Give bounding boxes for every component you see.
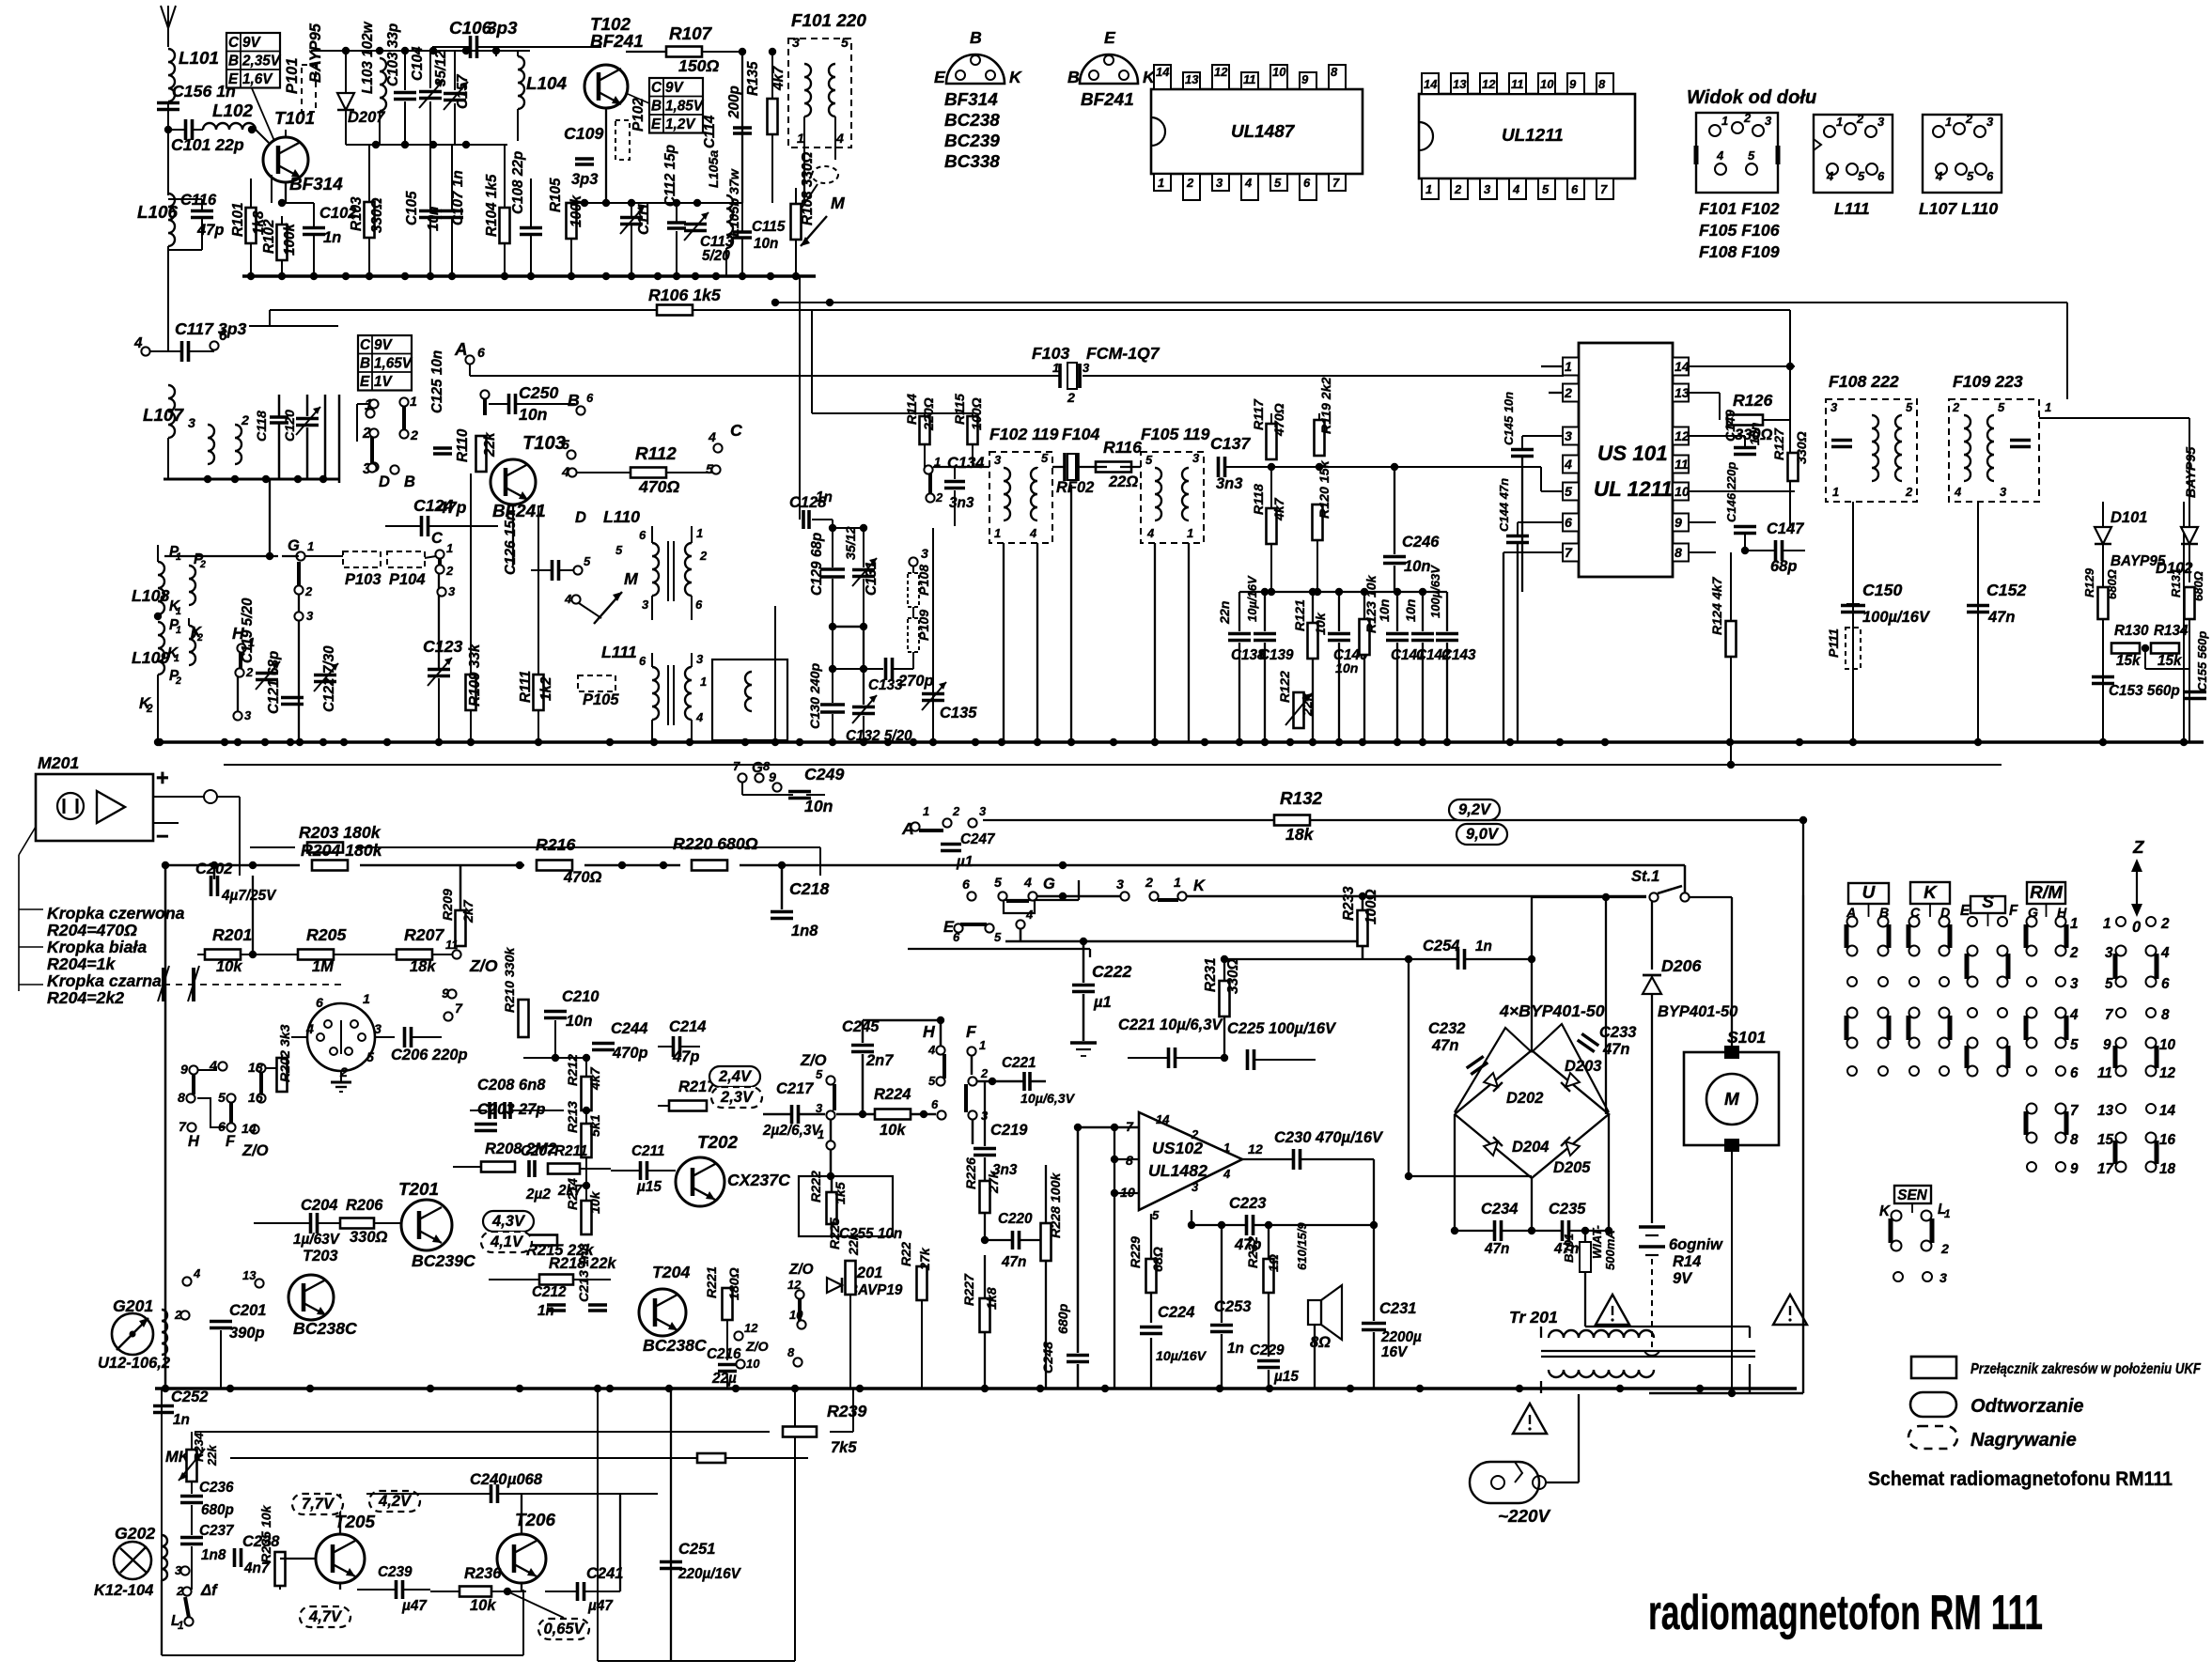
svg-text:10µ/6,3V: 10µ/6,3V [1020,1092,1076,1107]
svg-text:5: 5 [2105,976,2113,992]
svg-text:BYP401-50: BYP401-50 [1658,1003,1738,1020]
svg-text:5: 5 [584,554,591,568]
svg-text:2: 2 [2160,916,2170,932]
svg-text:5: 5 [1967,169,1974,183]
svg-text:3: 3 [374,1022,382,1037]
svg-text:4: 4 [305,1022,314,1037]
svg-text:Z/O: Z/O [745,1340,769,1355]
svg-text:~220V: ~220V [1498,1507,1551,1527]
svg-text:1,6V: 1,6V [242,71,273,87]
svg-text:7: 7 [1332,176,1340,190]
svg-text:F109 223: F109 223 [1953,372,2023,391]
svg-text:680p: 680p [201,1502,234,1518]
svg-text:F: F [2009,903,2018,919]
svg-text:R201: R201 [212,925,252,944]
svg-text:E: E [934,68,946,86]
svg-text:68Ω: 68Ω [1151,1247,1166,1272]
svg-text:C111: C111 [636,203,652,235]
svg-text:C121 68p: C121 68p [266,651,282,714]
svg-text:R209: R209 [441,889,456,921]
svg-text:L107 L110: L107 L110 [1919,199,1998,218]
svg-text:R226: R226 [964,1157,979,1189]
svg-text:9V: 9V [665,80,685,96]
svg-text:8: 8 [787,1345,795,1359]
svg-text:100µ/16V: 100µ/16V [1862,609,1931,626]
svg-text:2: 2 [304,584,313,598]
svg-text:2: 2 [241,413,249,428]
svg-text:3: 3 [921,547,928,562]
svg-text:C249: C249 [804,765,844,784]
svg-text:B: B [568,391,580,410]
svg-text:C147: C147 [1767,520,1804,537]
svg-text:5: 5 [841,36,849,51]
svg-text:10n: 10n [566,1013,592,1030]
svg-text:C210: C210 [562,988,600,1005]
svg-text:680p: 680p [1056,1303,1071,1334]
svg-text:4: 4 [564,592,572,606]
svg-text:C145 10n: C145 10n [1502,392,1516,445]
svg-text:9,0V: 9,0V [1466,826,1500,843]
svg-text:8: 8 [178,1091,185,1106]
svg-text:RF02: RF02 [1056,479,1094,496]
svg-text:2: 2 [2069,945,2079,961]
svg-text:18k: 18k [410,958,436,975]
svg-text:500mA: 500mA [1603,1230,1617,1270]
svg-text:470Ω: 470Ω [1272,403,1287,437]
svg-text:7: 7 [2070,1103,2080,1119]
svg-text:C: C [651,80,662,96]
svg-text:1: 1 [176,625,181,636]
svg-text:C129 68p: C129 68p [809,533,825,596]
svg-text:C139: C139 [1259,647,1294,663]
svg-text:150Ω: 150Ω [678,56,720,75]
svg-text:5: 5 [366,1050,375,1065]
svg-text:C224: C224 [1158,1304,1194,1321]
svg-text:R211: R211 [554,1143,587,1159]
svg-text:U12-106,2: U12-106,2 [98,1355,170,1372]
svg-text:B: B [360,356,370,372]
svg-text:1,65V: 1,65V [374,356,413,372]
svg-text:C222: C222 [1092,962,1131,981]
svg-text:T202: T202 [697,1133,739,1153]
svg-text:R220 680Ω: R220 680Ω [673,834,758,853]
svg-text:1: 1 [176,551,181,563]
svg-text:R107: R107 [669,24,713,44]
svg-text:3: 3 [1083,361,1090,375]
svg-text:R236: R236 [464,1565,502,1582]
svg-text:Δf: Δf [200,1582,218,1599]
svg-text:C211: C211 [631,1143,664,1159]
svg-text:C218: C218 [789,879,829,898]
svg-text:−: − [156,825,169,849]
svg-text:D: D [575,509,586,526]
svg-text:µ47: µ47 [587,1598,614,1614]
svg-text:1: 1 [446,541,453,555]
svg-text:10k: 10k [880,1122,906,1139]
svg-text:4: 4 [927,1043,936,1057]
svg-text:6: 6 [2070,1065,2079,1081]
svg-text:K: K [1193,877,1206,894]
svg-text:µ15: µ15 [1273,1369,1299,1385]
svg-text:5: 5 [994,876,1003,891]
svg-text:10k: 10k [588,1190,603,1214]
svg-text:C109: C109 [564,124,603,143]
svg-text:9: 9 [2103,1037,2111,1053]
svg-text:C234: C234 [1481,1201,1518,1218]
svg-text:R120 15k: R120 15k [1317,459,1332,519]
svg-text:22µ: 22µ [711,1371,737,1387]
svg-text:D204: D204 [1512,1139,1549,1156]
svg-text:R227: R227 [962,1273,977,1306]
svg-text:4: 4 [1244,176,1253,190]
svg-text:R231: R231 [1203,957,1219,992]
svg-text:14: 14 [2159,1103,2176,1119]
svg-text:C237: C237 [199,1523,235,1539]
svg-text:4,2V: 4,2V [378,1493,413,1510]
svg-text:2: 2 [1564,386,1572,401]
svg-text:5k1: 5k1 [588,1114,603,1137]
svg-text:1n: 1n [537,1303,554,1319]
svg-text:3: 3 [448,584,456,598]
svg-text:C250: C250 [519,383,558,402]
svg-text:5: 5 [706,462,714,477]
svg-text:C131: C131 [864,561,880,596]
svg-text:330Ω: 330Ω [369,197,385,233]
svg-text:10µ/16V: 10µ/16V [1156,1349,1207,1364]
svg-text:S: S [1982,892,1994,912]
svg-text:3: 3 [2105,945,2113,961]
svg-text:R233: R233 [1341,886,1357,921]
svg-text:L109: L109 [132,648,169,667]
svg-text:9V: 9V [374,337,394,353]
svg-text:2,35V: 2,35V [241,54,282,70]
svg-text:C220: C220 [998,1211,1033,1227]
svg-text:F108 F109: F108 F109 [1699,242,1780,261]
svg-text:L106: L106 [137,203,179,223]
svg-text:6: 6 [2161,976,2170,992]
svg-text:0: 0 [2132,919,2142,936]
svg-text:C: C [360,337,371,353]
svg-text:2: 2 [362,426,371,442]
svg-text:C247: C247 [960,831,996,847]
svg-text:3: 3 [1216,176,1223,190]
svg-text:R216: R216 [536,835,575,854]
svg-text:G: G [1043,876,1055,892]
svg-text:R109 33k: R109 33k [467,643,483,706]
svg-text:1: 1 [2103,916,2111,932]
svg-text:UL1482: UL1482 [1148,1161,1207,1180]
svg-text:C157: C157 [455,73,471,109]
svg-text:180Ω: 180Ω [727,1267,742,1300]
svg-text:6: 6 [639,528,646,542]
svg-text:T203: T203 [303,1248,338,1265]
svg-text:680Ω: 680Ω [2105,569,2119,599]
svg-text:C114: C114 [702,115,718,148]
svg-text:R204=2k2: R204=2k2 [47,988,124,1007]
svg-text:2: 2 [196,632,203,644]
svg-text:4: 4 [1826,169,1834,183]
svg-text:12: 12 [1248,1142,1263,1157]
svg-text:9V: 9V [242,35,262,51]
svg-text:R228 100k: R228 100k [1049,1172,1064,1238]
svg-text:10: 10 [1272,65,1286,79]
svg-text:C241: C241 [586,1565,623,1582]
svg-text:1: 1 [979,1038,986,1052]
svg-text:C246: C246 [1402,534,1440,551]
svg-text:3: 3 [696,652,704,666]
svg-text:C207: C207 [521,1143,556,1159]
svg-text:7: 7 [455,1001,463,1016]
svg-text:2k7: 2k7 [461,899,476,923]
svg-text:R235 10k: R235 10k [259,1504,274,1563]
svg-text:L102: L102 [212,101,254,121]
svg-text:BC238: BC238 [944,111,1000,131]
svg-text:3: 3 [1484,182,1491,196]
svg-text:470Ω: 470Ω [563,869,602,886]
svg-text:C213 1n8: C213 1n8 [577,1244,592,1302]
svg-text:R115: R115 [953,393,968,425]
svg-text:1n: 1n [1475,939,1492,954]
svg-text:3: 3 [1192,451,1200,465]
svg-text:1: 1 [410,395,417,410]
svg-text:2: 2 [1940,1242,1949,1257]
svg-text:C123: C123 [423,637,462,656]
svg-text:Z/O: Z/O [788,1262,814,1278]
svg-text:R105: R105 [548,178,564,212]
svg-text:R110: R110 [455,428,471,462]
svg-text:K: K [1009,68,1022,86]
svg-text:9V: 9V [1673,1270,1693,1287]
svg-text:9: 9 [1569,77,1577,91]
svg-text:C143: C143 [1441,647,1476,663]
svg-text:14: 14 [1424,77,1438,91]
svg-text:µ47: µ47 [401,1598,428,1614]
svg-text:3: 3 [1765,114,1772,128]
svg-text:14: 14 [1156,1112,1170,1126]
svg-text:A: A [901,819,914,838]
svg-text:2: 2 [1856,112,1864,126]
svg-text:R121: R121 [1293,599,1308,631]
svg-text:3: 3 [1565,429,1572,444]
svg-text:4: 4 [695,710,704,724]
svg-text:2: 2 [935,490,943,504]
svg-text:2: 2 [199,559,206,570]
svg-text:5: 5 [562,438,570,453]
svg-text:1: 1 [1425,182,1432,196]
svg-text:C105: C105 [404,191,420,225]
svg-text:C126 15n: C126 15n [503,512,519,575]
svg-text:4µ7/25V: 4µ7/25V [221,888,277,904]
svg-text:3: 3 [306,609,314,623]
svg-text:35/12: 35/12 [433,50,449,86]
svg-text:C221: C221 [1002,1055,1036,1071]
svg-text:10n: 10n [1378,598,1393,622]
svg-text:Kropka biała: Kropka biała [47,938,147,956]
svg-text:R134: R134 [2154,623,2189,639]
svg-text:3: 3 [175,1563,182,1577]
svg-text:C251: C251 [678,1541,715,1558]
svg-text:13: 13 [1675,386,1690,401]
svg-text:35/12: 35/12 [844,526,859,560]
svg-text:M: M [624,569,639,588]
svg-text:R135: R135 [745,61,761,96]
svg-text:C221 10µ/6,3V: C221 10µ/6,3V [1118,1016,1223,1033]
svg-text:R202 3k3: R202 3k3 [278,1024,293,1082]
svg-text:G201: G201 [113,1296,153,1315]
svg-text:4: 4 [835,132,844,147]
svg-text:R22: R22 [899,1242,914,1266]
svg-text:Z/O: Z/O [800,1052,827,1069]
svg-text:5: 5 [218,1091,226,1106]
svg-text:7: 7 [1565,546,1573,561]
svg-text:6: 6 [962,877,970,892]
svg-text:9: 9 [1675,516,1682,531]
svg-text:3: 3 [244,708,252,722]
svg-text:3n3: 3n3 [949,495,974,511]
svg-text:US102: US102 [1152,1139,1203,1157]
svg-text:R/M: R/M [2030,883,2064,903]
svg-text:C125 10n: C125 10n [429,350,445,413]
svg-text:2: 2 [1454,182,1462,196]
svg-text:4: 4 [708,430,716,445]
svg-text:2,4V: 2,4V [718,1068,753,1085]
svg-text:G: G [288,537,300,554]
svg-text:D: D [379,473,390,490]
svg-text:C115: C115 [752,219,786,235]
svg-text:10n: 10n [1404,558,1430,575]
svg-text:1: 1 [696,526,703,540]
svg-text:C152: C152 [1986,581,2026,599]
svg-text:P108: P108 [917,565,932,596]
svg-text:2: 2 [1067,391,1075,406]
svg-text:22Ω: 22Ω [1108,473,1138,490]
svg-text:4: 4 [561,465,569,480]
svg-text:11: 11 [1243,72,1256,86]
svg-text:2: 2 [1743,111,1752,125]
svg-text:C137: C137 [1210,434,1251,453]
svg-text:BF314: BF314 [944,90,998,110]
svg-text:22k: 22k [482,431,498,458]
svg-text:47n: 47n [1431,1037,1458,1054]
svg-text:F103: F103 [1032,344,1069,363]
svg-text:U: U [1862,883,1877,903]
svg-text:R114: R114 [905,394,920,425]
svg-text:R234: R234 [192,1432,206,1462]
svg-text:C217: C217 [776,1080,814,1097]
svg-text:12: 12 [1675,429,1690,444]
svg-text:13: 13 [1185,72,1199,86]
svg-text:18k: 18k [1285,825,1315,844]
svg-text:1: 1 [178,1619,184,1632]
svg-text:6: 6 [1877,169,1885,183]
svg-text:SEN: SEN [1897,1187,1927,1203]
svg-text:F105 F106: F105 F106 [1699,221,1780,240]
svg-text:F: F [966,1022,977,1041]
svg-text:R132: R132 [1280,789,1323,809]
svg-text:390p: 390p [229,1325,265,1342]
svg-text:C153 560p: C153 560p [2109,683,2180,699]
svg-text:1: 1 [1832,485,1839,499]
svg-text:14: 14 [1675,360,1690,375]
svg-text:C118: C118 [255,411,270,442]
svg-text:47n: 47n [1001,1254,1026,1270]
svg-text:1: 1 [1945,115,1952,129]
svg-text:BC239: BC239 [944,132,1000,151]
svg-text:330Ω: 330Ω [1795,431,1810,464]
svg-text:5: 5 [1274,176,1282,190]
svg-text:8: 8 [1598,77,1606,91]
svg-text:4: 4 [2069,1007,2079,1023]
svg-text:12: 12 [744,1321,758,1335]
svg-text:7,7V: 7,7V [302,1496,335,1513]
svg-text:2: 2 [699,549,708,563]
svg-text:R101: R101 [230,202,246,237]
svg-text:R205: R205 [306,925,347,944]
svg-text:R203 180k: R203 180k [299,823,382,842]
svg-text:5: 5 [1041,451,1049,465]
svg-text:C212: C212 [532,1284,567,1300]
svg-text:11: 11 [445,938,459,952]
svg-text:1: 1 [1174,876,1181,891]
svg-text:1: 1 [923,804,929,818]
svg-text:5: 5 [1565,485,1573,500]
svg-text:E: E [1104,28,1116,47]
svg-text:10n: 10n [1748,422,1763,445]
svg-text:C: C [730,421,742,440]
svg-text:2: 2 [176,1584,184,1598]
svg-text:22n: 22n [1218,600,1233,625]
svg-text:µ15: µ15 [636,1179,662,1195]
svg-text:P103: P103 [345,571,382,588]
svg-text:10n: 10n [754,236,778,252]
svg-text:K: K [1924,883,1938,903]
svg-text:C134: C134 [947,455,984,472]
svg-text:C252: C252 [171,1389,208,1405]
svg-text:C101 22p: C101 22p [171,135,244,154]
svg-text:2200µ: 2200µ [1380,1329,1422,1345]
svg-text:BC238C: BC238C [643,1336,707,1355]
svg-text:9,2V: 9,2V [1458,801,1492,818]
svg-text:6: 6 [1986,169,1994,183]
svg-text:4: 4 [1029,526,1037,540]
svg-text:R229: R229 [1129,1236,1144,1268]
svg-text:4: 4 [1954,485,1962,499]
svg-text:L111: L111 [601,643,637,661]
svg-text:C231: C231 [1379,1300,1416,1317]
svg-text:330Ω: 330Ω [350,1229,388,1246]
svg-text:1k8: 1k8 [985,1287,1000,1310]
svg-text:1: 1 [1944,1207,1951,1220]
svg-text:5: 5 [1906,400,1913,414]
svg-text:4: 4 [1223,1167,1231,1181]
svg-text:7: 7 [2105,1007,2114,1023]
svg-text:C239: C239 [378,1564,413,1580]
svg-text:CX237C: CX237C [727,1171,790,1189]
svg-text:3: 3 [1939,1271,1947,1286]
svg-text:R212: R212 [566,1054,581,1086]
svg-text:R117: R117 [1252,398,1267,430]
svg-text:S101: S101 [1727,1028,1766,1047]
svg-text:C214: C214 [669,1018,706,1035]
svg-text:C236: C236 [199,1480,234,1496]
svg-text:B: B [651,99,662,115]
svg-text:R14: R14 [1673,1253,1701,1270]
svg-text:22k: 22k [847,1232,862,1256]
svg-text:1: 1 [1223,1141,1230,1155]
svg-text:4,3V: 4,3V [491,1213,526,1230]
svg-text:R207: R207 [404,925,444,944]
svg-text:R102: R102 [261,219,277,254]
